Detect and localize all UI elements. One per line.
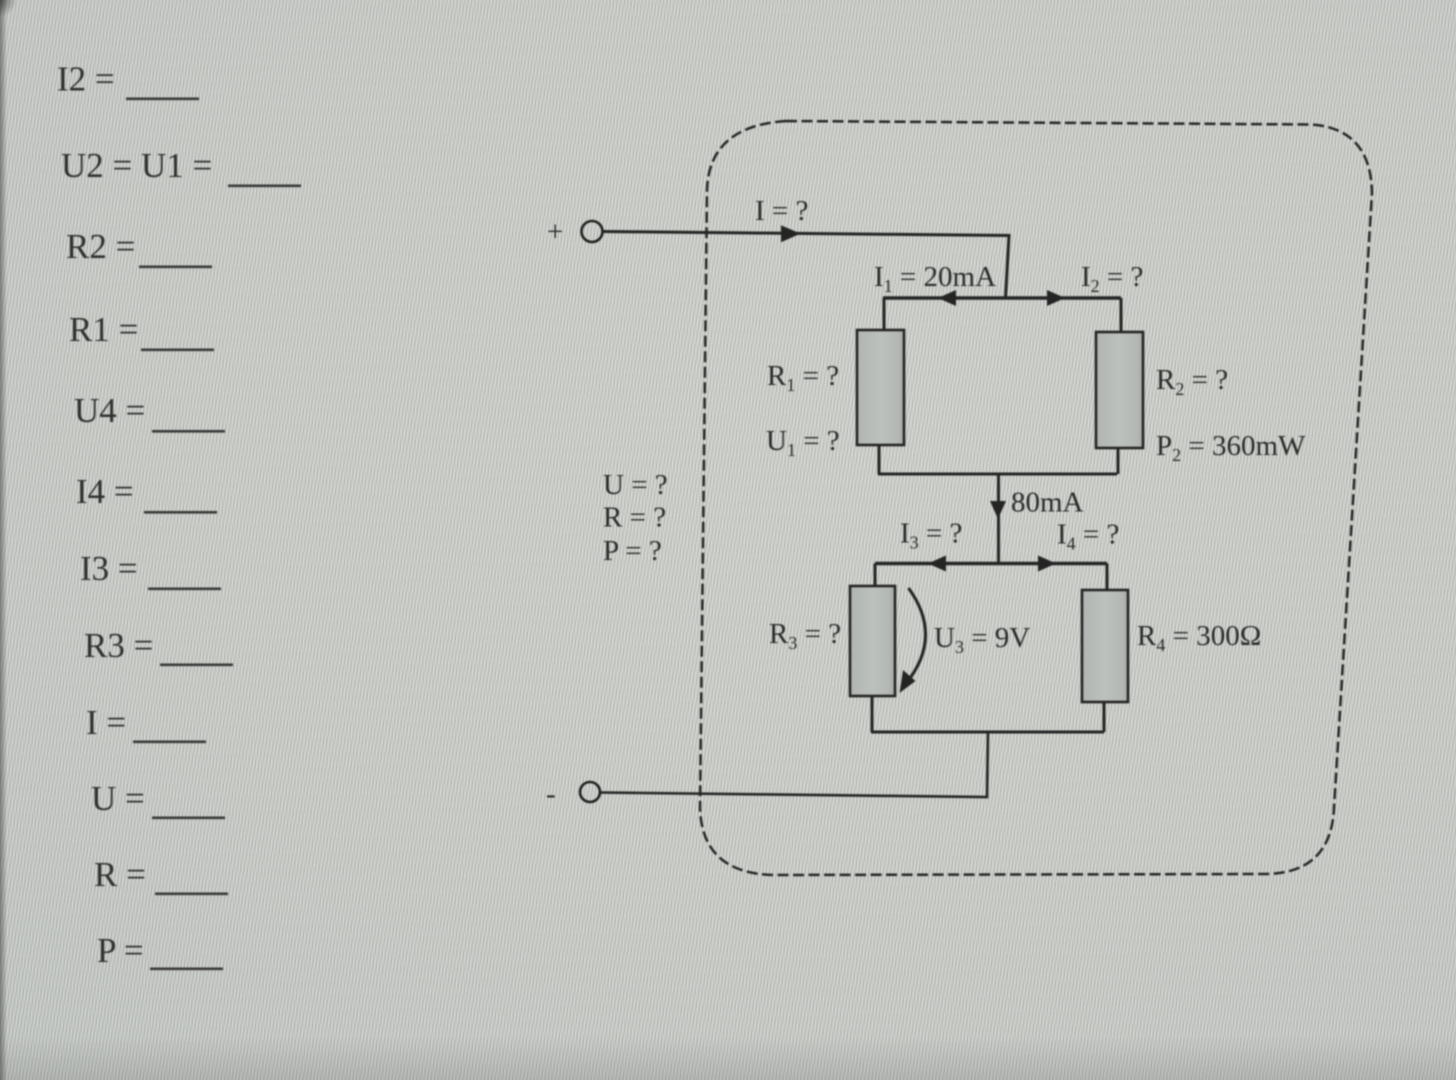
arrowhead of voltage arc U3	[900, 670, 916, 693]
svg-text:R1 = ?: R1 = ?	[767, 360, 839, 395]
svg-text:I4 =: I4 =	[76, 472, 134, 511]
label R3 =	[84, 626, 233, 666]
voltage arc U3 across R3	[906, 588, 926, 684]
arrow for current I on top wire	[781, 225, 801, 242]
dashed black-box boundary	[700, 121, 1372, 875]
svg-text:80mA: 80mA	[1011, 487, 1084, 519]
svg-text:I1 = 20mA: I1 = 20mA	[874, 261, 996, 296]
svg-text:I2 =: I2 =	[57, 60, 115, 99]
svg-text:U = ?: U = ?	[603, 469, 668, 501]
wire: R3 bottom lead	[871, 696, 874, 732]
svg-text:R =: R =	[94, 855, 146, 894]
wire: R2 top lead	[1120, 298, 1123, 332]
wire: R2 bottom lead	[1117, 448, 1120, 474]
label I2 =	[57, 60, 199, 101]
arrow for current I2 (right)	[1047, 290, 1065, 306]
svg-text:I = ?: I = ?	[755, 195, 808, 227]
wire: + terminal to top node	[604, 232, 1010, 299]
wire: lower junction horizontal	[875, 562, 1107, 565]
label U4 =	[74, 391, 225, 433]
wire: R4 bottom lead	[1103, 702, 1106, 732]
svg-text:-: -	[546, 778, 556, 810]
svg-text:P = ?: P = ?	[603, 535, 662, 567]
- terminal node	[580, 782, 600, 802]
svg-text:I =: I =	[86, 703, 126, 742]
arrow for current I1 (left)	[938, 290, 956, 306]
label R1 =	[69, 310, 214, 351]
svg-text:R4 = 300Ω: R4 = 300Ω	[1137, 620, 1261, 655]
svg-text:R2 = ?: R2 = ?	[1156, 364, 1228, 399]
wire: lower pair bottom bus	[871, 731, 1104, 734]
svg-text:U3 = 9V: U3 = 9V	[934, 622, 1030, 657]
svg-text:+: +	[547, 216, 563, 248]
svg-text:U4 =: U4 =	[74, 391, 145, 430]
resistor R4	[1082, 590, 1128, 702]
wire: R4 top lead	[1106, 564, 1109, 591]
label I3 =	[80, 549, 221, 590]
wire: bottom return to - terminal	[601, 732, 989, 797]
arrow for current 80mA (down)	[990, 501, 1006, 519]
label U2 = U1 =	[61, 146, 301, 187]
svg-text:R2 =: R2 =	[66, 227, 135, 266]
label I4 =	[76, 472, 217, 514]
wire: upper pair bottom bus	[878, 473, 1117, 476]
svg-text:P2 = 360mW: P2 = 360mW	[1156, 430, 1306, 465]
svg-text:I2 = ?: I2 = ?	[1081, 261, 1143, 296]
label U =	[91, 779, 225, 819]
label R2 =	[66, 227, 212, 268]
svg-text:I4 = ?: I4 = ?	[1057, 519, 1119, 554]
wire: R1 top lead	[883, 298, 886, 331]
label I =	[86, 703, 206, 743]
arrow for current I3 (left)	[928, 556, 946, 572]
svg-text:U =: U =	[91, 779, 145, 818]
resistor R3	[850, 586, 895, 696]
resistor R1	[857, 330, 904, 445]
svg-text:R = ?: R = ?	[603, 502, 666, 534]
wire: R3 top lead	[874, 564, 877, 588]
svg-text:P =: P =	[97, 931, 144, 970]
svg-text:U1 = ?: U1 = ?	[766, 425, 840, 460]
label R =	[94, 855, 228, 895]
svg-text:U2 = U1 =: U2 = U1 =	[61, 146, 212, 185]
svg-text:R3 = ?: R3 = ?	[769, 618, 841, 653]
wire: upper junction horizontal	[883, 296, 1121, 299]
label P =	[97, 931, 223, 970]
svg-text:I3 = ?: I3 = ?	[900, 518, 962, 553]
svg-text:R1 =: R1 =	[69, 310, 138, 349]
wire: middle vertical with 80mA	[997, 474, 1000, 563]
+ terminal node	[582, 221, 603, 242]
wire: R1 bottom lead	[878, 445, 881, 474]
svg-text:I3 =: I3 =	[80, 549, 138, 588]
svg-text:R3 =: R3 =	[84, 626, 153, 665]
arrow for current I4 (right)	[1038, 556, 1056, 572]
resistor R2	[1096, 332, 1143, 448]
